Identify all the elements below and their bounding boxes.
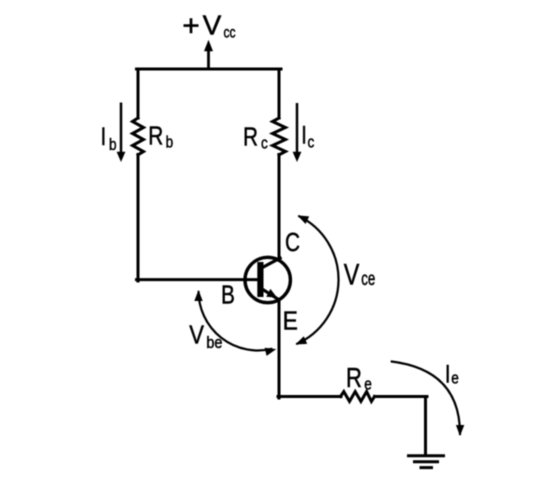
svg-text:V: V [344, 258, 360, 291]
arc Vce [295, 215, 338, 344]
svg-text:V: V [203, 10, 222, 41]
arc Ie [391, 361, 465, 436]
svg-text:C: C [285, 228, 300, 257]
arrow Ic current [293, 103, 302, 162]
wire emitter lead [278, 300, 281, 398]
arrow +Vcc supply [204, 40, 213, 71]
svg-text:E: E [283, 307, 298, 336]
resistor Rc [273, 118, 286, 155]
svg-text:b: b [166, 133, 174, 152]
ground [407, 456, 445, 468]
arc Vbe [194, 290, 276, 356]
svg-text:e: e [364, 375, 372, 394]
wire base lead [137, 278, 258, 281]
transistor Q1 [245, 257, 290, 302]
svg-text:R: R [243, 122, 258, 151]
svg-text:+: + [182, 10, 200, 43]
svg-text:b: b [109, 136, 117, 155]
svg-text:I: I [445, 360, 451, 388]
svg-text:B: B [221, 280, 235, 309]
svg-text:R: R [346, 363, 362, 394]
svg-text:R: R [148, 121, 163, 150]
svg-text:e: e [451, 369, 459, 388]
wire bottom left segment [278, 395, 341, 398]
wire left branch upper [137, 69, 140, 118]
svg-text:I: I [101, 123, 107, 151]
wire right branch upper [278, 69, 281, 118]
resistor Re [341, 392, 375, 402]
svg-text:V: V [189, 321, 204, 350]
svg-text:ce: ce [361, 269, 375, 290]
resistor Rb [133, 118, 144, 155]
svg-text:I: I [301, 121, 307, 149]
svg-text:c: c [261, 134, 268, 153]
svg-text:be: be [206, 334, 222, 352]
wire collector lead [278, 155, 281, 260]
wire left branch lower [137, 155, 140, 282]
wire bottom right segment [375, 395, 428, 398]
arrow Ib current [117, 103, 126, 163]
wire top rail [137, 68, 282, 71]
svg-text:cc: cc [224, 23, 236, 41]
wire ground lead [424, 397, 427, 456]
svg-text:c: c [308, 133, 315, 152]
